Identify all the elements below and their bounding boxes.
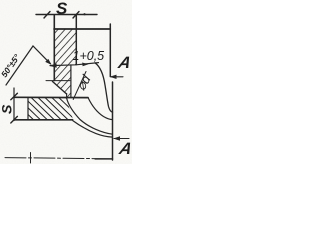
- right edge vertical: [109, 24, 111, 77]
- tick bottom: [11, 116, 18, 123]
- bell inner curve C2a: [88, 98, 112, 120]
- right wall / extension x76: [75, 15, 77, 65]
- angle leader polyline: [6, 46, 51, 85]
- axis dash-dot bottom: [5, 158, 113, 159]
- S dimension (left, vertical): [13, 88, 15, 121]
- dot on dimension line: [83, 13, 85, 15]
- dimension line S (top): [36, 14, 97, 16]
- plate hatched section: [28, 98, 73, 120]
- plate top edge: [14, 96, 88, 98]
- left wall of fitting x54: [53, 15, 55, 81]
- tick left of S dimension: [44, 12, 50, 19]
- lip right edge: [70, 65, 72, 97]
- tube lip hatched sliver: [55, 65, 71, 97]
- view arrow A (top): [111, 76, 123, 78]
- flare diagonal: [52, 81, 66, 94]
- plate left edge: [27, 97, 29, 120]
- top edge of fitting: [54, 28, 110, 30]
- tick top: [11, 93, 18, 100]
- fitting hatched section: [55, 29, 76, 64]
- bell outer curve C1: [95, 63, 113, 113]
- tube lower-inner curve C3: [73, 121, 113, 138]
- svg-text:S: S: [0, 104, 15, 114]
- slot inner edge: [66, 94, 68, 98]
- break line right x112.5: [112, 82, 114, 160]
- paper noise overlay: [0, 0, 132, 164]
- svg-text:S: S: [56, 0, 68, 18]
- lip bottom short line y80: [46, 80, 70, 82]
- svg-text:1+0,5: 1+0,5: [73, 49, 105, 63]
- leader under rotated label: [73, 72, 86, 100]
- tube lower-outer curve C2b: [67, 98, 113, 134]
- tick right of S dimension: [73, 12, 79, 19]
- plate bottom edge: [14, 119, 73, 121]
- view arrow A (bottom): [114, 138, 129, 140]
- dimension line 1+0,5 with left arrow: [50, 63, 99, 66]
